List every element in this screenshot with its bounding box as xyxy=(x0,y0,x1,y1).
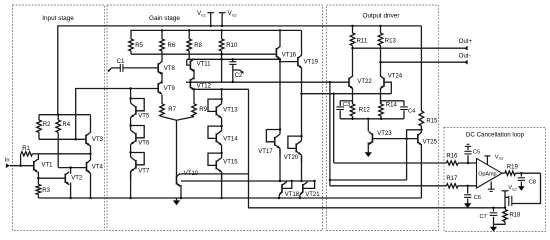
svg-text:R6: R6 xyxy=(168,43,176,49)
transistor VT18 xyxy=(279,181,300,198)
svg-text:VT11: VT11 xyxy=(197,61,212,67)
resistor R12 xyxy=(350,104,370,119)
transistor VT4 xyxy=(87,160,104,173)
ground arrow under C7/R18 xyxy=(490,224,497,231)
wire VT20 emitter to wire A xyxy=(300,155,302,182)
svg-text:R2: R2 xyxy=(43,122,51,128)
transistor VT14 xyxy=(208,125,238,153)
capacitor C4 xyxy=(400,101,416,119)
wire VT8 emitter to VT9 collector xyxy=(161,72,163,84)
svg-text:ic2: ic2 xyxy=(499,157,503,161)
svg-text:ic2: ic2 xyxy=(232,13,237,17)
svg-text:R11: R11 xyxy=(357,38,368,44)
label Gain stage xyxy=(149,15,180,22)
svg-text:OpAmp: OpAmp xyxy=(478,172,496,178)
wire VT17 emitter to wire A xyxy=(279,149,281,183)
wire VT22 emitter down xyxy=(352,88,354,105)
resistor R6 xyxy=(160,30,176,62)
transistor VT21 xyxy=(300,181,320,198)
wire Out- line xyxy=(379,53,470,64)
wire VT1 emitter down xyxy=(37,172,39,185)
wire VT4 base xyxy=(58,167,86,169)
svg-text:C1: C1 xyxy=(117,59,125,65)
svg-text:R17: R17 xyxy=(446,176,458,182)
resistor R13 xyxy=(378,26,396,62)
wire VT23 collector drop xyxy=(367,119,369,131)
wire VT19 emitter chain down xyxy=(301,67,303,136)
junction dot C8 tap xyxy=(520,172,522,174)
junction dot C6 tap xyxy=(467,185,469,187)
svg-text:R5: R5 xyxy=(135,43,143,49)
svg-text:VT3: VT3 xyxy=(92,137,104,143)
junction dots on bias rail xyxy=(161,29,281,31)
wire line C drop to R16 xyxy=(333,94,335,163)
transistor VT11 xyxy=(190,59,211,72)
wire VT19 collector up xyxy=(301,30,303,55)
wire VT23/VT25 base line xyxy=(373,138,418,140)
capacitor C1 xyxy=(117,59,158,72)
capacitor C3 xyxy=(336,101,350,119)
capacitor C2 xyxy=(229,59,243,82)
transistor VT22 xyxy=(349,76,372,89)
svg-text:VT12: VT12 xyxy=(197,84,212,90)
svg-text:VT4: VT4 xyxy=(92,164,104,170)
wire VT24 collector up xyxy=(380,62,382,77)
input arrow near C1 xyxy=(108,68,121,72)
wire VT19 base bias (R8 bottom) xyxy=(187,58,281,60)
resistor R16 xyxy=(446,154,476,166)
resistor R18 xyxy=(494,210,522,225)
junction dot VT19 base tap xyxy=(279,60,281,62)
wire sense line to left drop xyxy=(329,179,407,181)
wire R2/R4 top node xyxy=(39,114,91,116)
svg-text:R19: R19 xyxy=(507,164,519,170)
resistor R9 xyxy=(192,104,208,117)
transistor VT23 xyxy=(369,131,393,145)
transistor VT19 xyxy=(298,55,319,68)
svg-text:Output driver: Output driver xyxy=(363,13,401,20)
capacitor C6 xyxy=(464,186,481,201)
capacitor MOS-style coupling xyxy=(505,196,512,206)
resistor R3 xyxy=(36,184,51,198)
wire A VT10 region to VT18/VT21 xyxy=(181,180,315,182)
svg-text:VT1: VT1 xyxy=(42,162,54,168)
wire VT10 collector line xyxy=(181,174,249,175)
svg-text:R16: R16 xyxy=(446,154,458,160)
label DC Cancellation loop xyxy=(466,132,525,139)
junction dot R10 on bias wire xyxy=(220,53,222,55)
resistor R7 xyxy=(160,95,177,117)
junction dots on supply rail xyxy=(210,25,382,27)
wire rail down to R15 xyxy=(420,26,422,62)
wire VT16 collector up xyxy=(279,30,281,47)
svg-text:R14: R14 xyxy=(386,102,398,108)
wire VT4 emitter down xyxy=(90,173,92,198)
wire to gain stage VT9 base xyxy=(76,89,159,140)
svg-text:VT6: VT6 xyxy=(138,141,150,147)
junction dot base line sense tap xyxy=(405,137,407,139)
wire line B drop to R17 xyxy=(329,82,331,186)
wire long bottom feedback xyxy=(249,89,505,208)
svg-text:R18: R18 xyxy=(509,212,521,218)
junction dot VT1 emitter / VT2 base xyxy=(37,177,39,179)
wire C to VT24 base xyxy=(302,93,392,95)
transistor VT13 xyxy=(208,98,238,126)
svg-text:Out-: Out- xyxy=(459,53,471,59)
resistor R14 xyxy=(379,101,398,119)
input stage dashed box xyxy=(13,5,105,231)
transistor VT5 xyxy=(129,97,149,125)
ground bars above C5 xyxy=(465,144,471,146)
svg-text:C5: C5 xyxy=(473,149,480,155)
transistor VT1 xyxy=(34,159,53,172)
svg-text:VT13: VT13 xyxy=(223,107,238,113)
gain stage dashed box xyxy=(107,5,323,231)
svg-text:VT2: VT2 xyxy=(71,175,83,181)
junction dots on feedback node xyxy=(492,207,506,209)
wire VT5 chain top xyxy=(129,87,131,98)
resistor R17 xyxy=(446,176,476,188)
junction dot VT19 emitter / wire C xyxy=(300,93,302,95)
svg-text:R13: R13 xyxy=(385,38,397,44)
resistor R19 xyxy=(505,164,541,175)
transistor VT16 xyxy=(276,46,296,59)
svg-text:C6: C6 xyxy=(474,195,481,201)
label Output driver xyxy=(363,13,401,20)
svg-text:R4: R4 xyxy=(62,122,70,128)
wire VT11 emitter to VT12 collector xyxy=(193,69,195,79)
resistor R2 xyxy=(37,115,51,140)
capacitor C7 xyxy=(480,208,498,225)
wire VT1 collector to R1 xyxy=(37,154,39,160)
junction dots on wire A xyxy=(291,180,316,182)
svg-text:R15: R15 xyxy=(426,119,438,125)
junction dot C5 tap xyxy=(467,162,469,164)
resistor R4 xyxy=(56,115,71,168)
svg-text:VT17: VT17 xyxy=(258,149,273,155)
svg-text:VT24: VT24 xyxy=(388,73,403,79)
resistor R1 xyxy=(21,146,39,166)
svg-text:R9: R9 xyxy=(199,107,207,113)
wire VT2 emitter down xyxy=(70,183,72,198)
wire R16 input line xyxy=(334,162,447,164)
junction dot chain2 top xyxy=(220,88,222,90)
ground arrow under C6 xyxy=(464,201,471,208)
svg-text:VT21: VT21 xyxy=(305,192,320,198)
resistor R5 xyxy=(129,39,144,54)
wire R7/R9 join to VT10 xyxy=(162,117,194,176)
wire VT7 emitter to bottom rail xyxy=(130,172,132,199)
wire R2 bottom to VT3 base xyxy=(39,138,86,140)
op-amp U1 xyxy=(477,158,503,188)
transistor VT20 xyxy=(284,135,303,163)
wire VT12 base line B to VT22 xyxy=(186,81,349,83)
wire VT25 emitter down to bottom rail xyxy=(420,144,422,198)
wire bottom rail xyxy=(38,197,421,199)
wire gain-stage bias rail xyxy=(131,30,302,39)
svg-text:VT9: VT9 xyxy=(164,86,176,92)
svg-text:VT5: VT5 xyxy=(138,114,150,120)
power Vic2 at MOS cap xyxy=(502,185,517,208)
wire VT19 base xyxy=(280,61,298,63)
junction dot VT2 collector on VT4 base wire xyxy=(69,166,71,168)
transistor VT25 xyxy=(418,132,438,145)
ground arrow under VT23 xyxy=(365,150,372,157)
wire D VT12-emitter to feedback drop xyxy=(194,88,249,90)
svg-text:In: In xyxy=(5,158,10,164)
svg-text:VT16: VT16 xyxy=(282,52,297,58)
svg-text:Gain stage: Gain stage xyxy=(149,15,180,22)
svg-text:C4: C4 xyxy=(408,108,416,114)
wire VT16 emitter chain down xyxy=(279,59,281,130)
wire VT22 emitter node to C3 xyxy=(340,100,352,102)
resistor R8 xyxy=(187,30,203,59)
wire output feedback drop xyxy=(512,173,541,203)
transistor VT24 xyxy=(380,73,403,88)
svg-text:R7: R7 xyxy=(168,107,176,113)
svg-text:C2: C2 xyxy=(235,73,243,79)
transistor VT6 xyxy=(129,124,149,152)
svg-text:VT23: VT23 xyxy=(377,131,392,137)
svg-text:R10: R10 xyxy=(226,43,238,49)
output driver dashed box xyxy=(327,5,439,231)
transistor VT17 xyxy=(258,128,281,156)
svg-text:VT18: VT18 xyxy=(285,192,300,198)
svg-text:VT19: VT19 xyxy=(304,59,319,65)
wire VT24 emitter down xyxy=(380,88,382,105)
resistor R11 xyxy=(350,26,368,48)
resistor R10 xyxy=(219,30,238,82)
svg-text:R8: R8 xyxy=(194,43,202,49)
diode link VT11 base xyxy=(187,59,191,65)
power Vic1 supply symbol xyxy=(197,10,214,26)
junction dots on line B xyxy=(232,81,331,84)
wire VT13 chain top xyxy=(221,89,223,99)
svg-text:ic1: ic1 xyxy=(201,13,206,17)
capacitor C8 xyxy=(518,173,536,185)
junction dots on bottom rail xyxy=(69,197,301,199)
wire VT10 emitter down xyxy=(180,185,182,198)
wire top supply rail xyxy=(58,26,422,115)
svg-text:DC Cancellation loop: DC Cancellation loop xyxy=(466,132,525,139)
ground arrow on bottom rail xyxy=(173,198,180,205)
wire RC network bottom node xyxy=(340,118,404,120)
wire VT22 collector up xyxy=(352,48,354,77)
junction dot VT25 collector node xyxy=(420,129,422,131)
power Vic2 supply symbol xyxy=(219,10,237,26)
wire VT24 base drop to wire C xyxy=(384,82,391,94)
transistor VT9 xyxy=(158,81,175,94)
capacitor C5 xyxy=(464,146,480,163)
svg-text:ic2: ic2 xyxy=(513,187,517,191)
resistor R15 xyxy=(419,62,438,130)
svg-text:VT15: VT15 xyxy=(223,160,238,166)
svg-text:VT20: VT20 xyxy=(284,155,299,161)
svg-text:Input stage: Input stage xyxy=(42,15,74,22)
op-amp positive supply xyxy=(484,154,503,164)
wire VT25 collector xyxy=(420,130,422,133)
wire VT23 emitter to ground xyxy=(367,142,369,150)
wire VT3 emitter to VT4 collector xyxy=(90,145,92,160)
junction dots RC bottom node xyxy=(351,118,382,120)
junction dot VT9-feed on VT3 base wire xyxy=(75,138,77,140)
wire op-amp output xyxy=(502,172,505,174)
svg-text:R3: R3 xyxy=(42,188,50,194)
wire collector sense to base line drop xyxy=(407,130,422,180)
junction dot input node xyxy=(19,165,21,167)
junction dots on VT19 bias wire xyxy=(220,58,234,60)
ground arrow under C8 xyxy=(518,184,525,191)
transistor VT8 xyxy=(158,61,175,74)
svg-text:VT7: VT7 xyxy=(138,168,150,174)
transistor VT12 xyxy=(190,77,211,90)
wire R17 input line xyxy=(330,185,446,187)
transistor VT10 xyxy=(177,171,199,187)
svg-text:R12: R12 xyxy=(359,108,371,114)
svg-text:C8: C8 xyxy=(529,179,536,185)
svg-text:C7: C7 xyxy=(480,214,487,220)
svg-text:Out+: Out+ xyxy=(459,39,473,45)
svg-text:VT25: VT25 xyxy=(423,139,438,145)
wire VT2 base to VT1 emitter xyxy=(38,177,65,179)
svg-text:VT22: VT22 xyxy=(357,79,372,85)
wire VT12 emitter to R9 xyxy=(193,88,195,104)
wire Out+ line xyxy=(351,39,472,50)
junction dot wire C to R16 drop xyxy=(333,93,335,95)
arrow near C2 xyxy=(233,70,244,74)
svg-text:VT14: VT14 xyxy=(223,136,238,142)
DC cancellation loop dashed box xyxy=(444,128,546,232)
node In port xyxy=(5,158,34,169)
wire R1 node to VT3 emitter xyxy=(38,153,91,155)
wire VT15 emitter to bottom rail xyxy=(221,172,223,198)
wire VT2 collector up xyxy=(70,168,72,174)
wire VT24 emitter node to C4 xyxy=(381,100,405,102)
transistor VT7 xyxy=(129,151,149,179)
transistor VT2 xyxy=(65,172,83,185)
op-amp ground xyxy=(488,182,495,192)
wire VT3 collector up xyxy=(90,115,92,133)
wire VT16 base bias (R5 bottom) xyxy=(131,53,276,55)
svg-text:VT8: VT8 xyxy=(164,66,176,72)
label Input stage xyxy=(42,15,74,22)
transistor VT3 xyxy=(86,133,104,146)
transistor VT15 xyxy=(208,152,238,180)
